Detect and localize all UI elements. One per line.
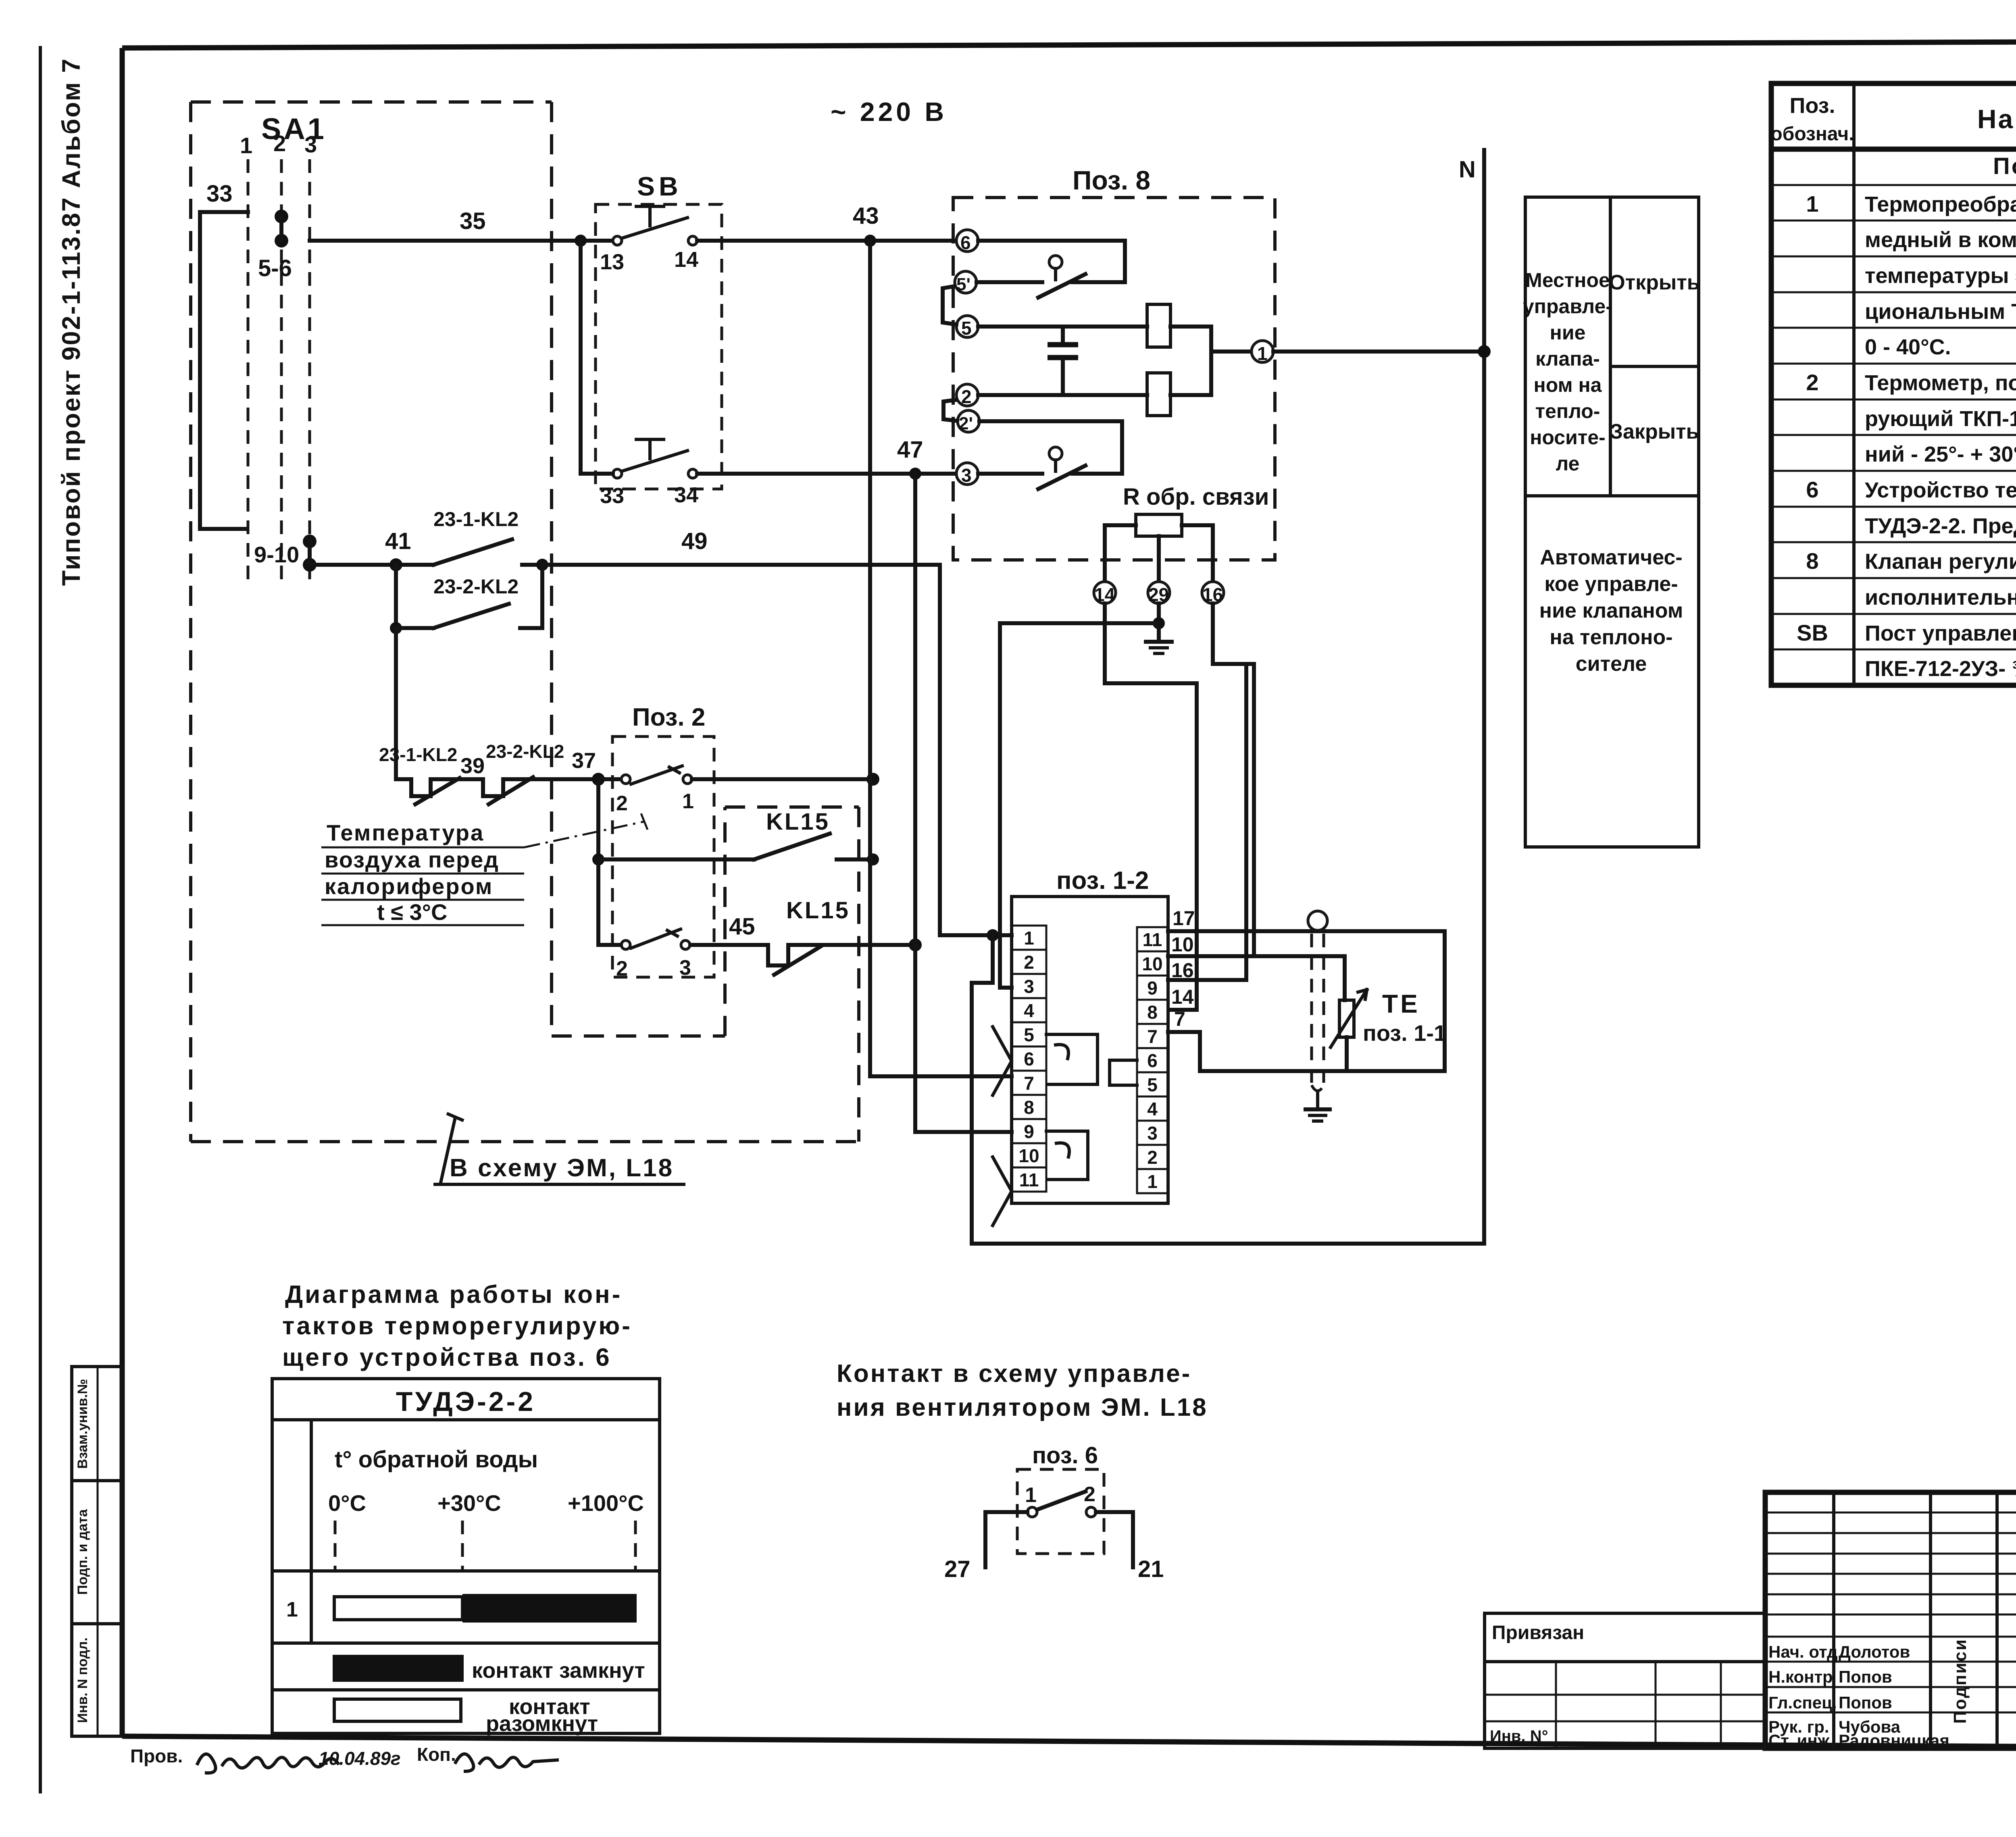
svg-text:N: N: [1459, 156, 1476, 183]
SA1 contact 9-10: [254, 535, 317, 572]
wire 41 row: [310, 528, 433, 571]
svg-text:Клапан регулирующий 25 ч 93: Клапан регулирующий 25 ч 939 нж с: [1865, 549, 2016, 574]
svg-text:Диаграмма работы кон-: Диаграмма работы кон-: [285, 1281, 622, 1309]
wire 49: [536, 528, 940, 571]
svg-text:ле: ле: [1556, 452, 1580, 475]
svg-text:Устройство терморегулирующее: Устройство терморегулирующее: [1865, 478, 2016, 502]
svg-text:исполнительным механизмом МЭ: исполнительным механизмом МЭО-0,63: [1865, 585, 2016, 610]
svg-text:2: 2: [961, 386, 972, 407]
svg-text:8: 8: [1024, 1097, 1034, 1118]
svg-text:ТЕ: ТЕ: [1382, 989, 1420, 1018]
svg-text:щего устройства поз. 6: щего устройства поз. 6: [282, 1344, 612, 1371]
svg-text:Привязан: Привязан: [1492, 1622, 1584, 1644]
svg-text:5': 5': [956, 275, 971, 294]
svg-text:23-2-KL2: 23-2-KL2: [433, 575, 519, 598]
svg-text:+100°С: +100°С: [568, 1490, 644, 1516]
svg-text:t ≤ 3°С: t ≤ 3°С: [377, 899, 447, 925]
wire terminal 16 to strip rows 10 and 16: [1213, 603, 1254, 664]
svg-text:Поз. 8: Поз. 8: [1073, 165, 1150, 195]
note to scheme EM L18: [433, 1113, 685, 1184]
jumper loop cells 10-11: [1046, 1131, 1088, 1180]
valve unit box Poz.8: [953, 165, 1275, 560]
svg-text:39: 39: [460, 754, 485, 778]
svg-text:4: 4: [1024, 1000, 1034, 1021]
svg-text:Инв. N подл.: Инв. N подл.: [75, 1637, 90, 1723]
svg-text:ние клапаном: ние клапаном: [1539, 599, 1683, 622]
svg-text:контакт замкнут: контакт замкнут: [472, 1658, 645, 1683]
wire terminal 14 to strip row 17: [1105, 603, 1197, 1010]
terminal 5': [955, 271, 977, 294]
svg-text:10: 10: [1142, 953, 1162, 974]
svg-text:13: 13: [600, 250, 624, 274]
jumper loop cells 5-7: [1046, 1034, 1098, 1084]
svg-text:Термометр, показывающий сигн: Термометр, показывающий сигнализи-: [1865, 371, 2016, 395]
svg-text:23-2-KL2: 23-2-KL2: [486, 741, 564, 762]
svg-text:3: 3: [304, 132, 317, 157]
svg-text:тепло-: тепло-: [1535, 400, 1600, 422]
sheet edge line: [39, 48, 42, 1792]
wire down from node 37: [596, 779, 600, 945]
svg-text:Н.контр: Н.контр: [1768, 1667, 1833, 1686]
svg-text:Контакт в схему управле-: Контакт в схему управле-: [837, 1360, 1191, 1388]
svg-text:температуры электрическим: температуры электрическим пропор-: [1865, 264, 2016, 288]
wire terminal2 row: [978, 393, 1147, 397]
svg-text:Термопреобразователь сопрот: Термопреобразователь сопротивления: [1865, 192, 2016, 216]
svg-text:Инв. N°: Инв. N°: [1490, 1727, 1548, 1745]
svg-text:t° обратной воды: t° обратной воды: [335, 1446, 538, 1473]
svg-text:рующий ТКП-100Эк. Пределы: рующий ТКП-100Эк. Пределы измере-: [1865, 407, 2016, 431]
svg-text:1: 1: [1806, 191, 1818, 216]
svg-text:ний - 25°- + 30°С.: ний - 25°- + 30°С.: [1865, 442, 2016, 466]
svg-text:5: 5: [1147, 1074, 1158, 1095]
vertical wire from node 43 down: [870, 241, 1012, 1076]
node 43: [853, 203, 879, 247]
RTD element TE poz.1-1: [1331, 989, 1446, 1071]
wire row 16: [1168, 959, 1246, 982]
svg-text:Местное: Местное: [1525, 269, 1610, 291]
svg-text:Попов: Попов: [1839, 1667, 1892, 1686]
svg-text:11: 11: [1019, 1169, 1039, 1190]
svg-text:3: 3: [961, 465, 972, 486]
svg-text:45: 45: [729, 913, 755, 940]
left terminal strip cells 1-11: [1012, 926, 1046, 1192]
wire 35 top row: [310, 208, 617, 241]
svg-text:2: 2: [616, 957, 628, 980]
svg-text:2: 2: [1024, 952, 1034, 973]
upper relay contact KL15 row: [592, 809, 879, 865]
svg-text:клапа-: клапа-: [1535, 347, 1600, 370]
svg-text:21: 21: [1138, 1556, 1164, 1582]
svg-text:обознач.: обознач.: [1770, 123, 1854, 145]
svg-text:9-10: 9-10: [254, 542, 299, 567]
svg-text:~ 220 В: ~ 220 В: [831, 97, 947, 127]
node at SB left: [575, 235, 587, 247]
sensor TE enclosure: [1200, 931, 1445, 1071]
svg-text:SB: SB: [1797, 620, 1828, 645]
switch SA1: [240, 112, 327, 583]
relay contact 23-2-KL2 branch: [390, 565, 542, 634]
wire winding B to node: [1170, 352, 1211, 395]
title block: [1485, 1492, 2016, 1797]
svg-text:Пост управления кнопочный: Пост управления кнопочный: [1865, 621, 2016, 645]
svg-text:Нач. отд: Нач. отд: [1768, 1642, 1838, 1661]
thermostat contact poz.6: [944, 1442, 1164, 1582]
wire SB branch down: [579, 241, 583, 474]
wire terminal6 loop: [978, 241, 1125, 282]
svg-text:0°С: 0°С: [328, 1490, 366, 1516]
svg-text:Взам.унив.№: Взам.унив.№: [75, 1379, 90, 1469]
interlock contact 23-1-KL2 (notch type): [379, 744, 460, 804]
wire row 10: [1168, 933, 1345, 1000]
wire 37: [524, 749, 623, 786]
feedback resistor R obr svyazi: [1105, 484, 1269, 582]
diagram table TUDE-2-2: [272, 1379, 660, 1736]
N line: [1459, 150, 1491, 1244]
svg-text:ТУДЭ-2-2: ТУДЭ-2-2: [396, 1386, 535, 1417]
svg-text:6: 6: [1147, 1050, 1158, 1071]
svg-text:По месту: По месту: [1993, 153, 2016, 179]
svg-text:KL15: KL15: [786, 897, 850, 924]
connector chevron lower: [993, 1157, 1012, 1225]
svg-text:1: 1: [286, 1598, 298, 1621]
terminal 3: [956, 463, 978, 486]
svg-text:поз. 1-2: поз. 1-2: [1056, 867, 1149, 895]
svg-text:циональным ТЭ2П. Пределы регул: циональным ТЭ2П. Пределы регулирования: [1865, 300, 2016, 324]
pushbutton SB box: [596, 171, 722, 489]
svg-text:1: 1: [1024, 928, 1034, 949]
SB button open contact 13-14: [600, 206, 955, 274]
svg-text:SB: SB: [637, 171, 682, 201]
jumper 5'-5: [943, 286, 956, 325]
svg-text:поз. 6: поз. 6: [1032, 1442, 1098, 1469]
terminal 6: [956, 230, 978, 253]
svg-text:1: 1: [682, 790, 694, 813]
svg-text:2: 2: [1147, 1147, 1158, 1168]
svg-text:ние: ние: [1550, 321, 1586, 344]
relay contact 23-1-KL2 on wire 41: [433, 508, 542, 565]
svg-text:Подп. и дата: Подп. и дата: [75, 1509, 90, 1595]
svg-text:2: 2: [1806, 370, 1818, 395]
svg-text:9: 9: [1024, 1121, 1034, 1142]
fan control contact caption: [837, 1360, 1208, 1421]
wire winding A to node: [1170, 327, 1211, 352]
svg-text:В схему ЭМ, L18: В схему ЭМ, L18: [450, 1154, 674, 1182]
ground symbol: [1146, 623, 1172, 653]
limit switch on 3 line: [978, 447, 1122, 489]
wire row 7: [1168, 1008, 1200, 1071]
svg-text:41: 41: [385, 528, 411, 554]
Poz.2 lower contact 2-3: [598, 929, 764, 980]
terminal 14: [1094, 582, 1116, 605]
right terminal strip cells 11-1: [1137, 927, 1168, 1193]
svg-text:1: 1: [240, 133, 252, 158]
svg-text:Автоматичес-: Автоматичес-: [1540, 546, 1683, 569]
svg-text:кое управле-: кое управле-: [1544, 572, 1678, 596]
handwritten notes: [130, 1744, 557, 1773]
component list table: [1770, 83, 2016, 685]
Poz.2 upper contact 2-1: [616, 766, 879, 815]
svg-text:1: 1: [1147, 1171, 1158, 1192]
svg-text:Пров.: Пров.: [130, 1745, 183, 1766]
svg-text:49: 49: [681, 528, 708, 554]
svg-text:2: 2: [1084, 1483, 1095, 1506]
svg-text:5: 5: [961, 318, 972, 339]
wire loop to N line bottom: [972, 935, 1484, 1244]
svg-text:33: 33: [206, 181, 233, 207]
svg-text:Радовницкая: Радовницкая: [1839, 1731, 1949, 1750]
wire down to interlock row: [394, 628, 398, 779]
lower relay contact KL15 (notch type): [764, 897, 922, 975]
svg-text:4: 4: [1147, 1098, 1158, 1119]
svg-text:34: 34: [674, 483, 698, 507]
svg-text:+30°С: +30°С: [437, 1490, 501, 1516]
svg-text:на теплоно-: на теплоно-: [1549, 626, 1672, 649]
svg-text:Попов: Попов: [1839, 1693, 1892, 1712]
wire terminal 2' loop: [979, 421, 1122, 474]
svg-text:3: 3: [1024, 976, 1034, 997]
svg-text:тактов терморегулирую-: тактов терморегулирую-: [282, 1312, 632, 1340]
svg-text:14: 14: [674, 248, 698, 272]
thermometer box Poz.2: [612, 703, 714, 977]
svg-text:14: 14: [1171, 986, 1194, 1008]
svg-text:17: 17: [1173, 907, 1195, 930]
limit switch on 5' line: [977, 256, 1125, 297]
wire 33 bracket: [200, 181, 248, 529]
local control caption box: [1523, 197, 1700, 847]
vertical wire from node 47 down: [915, 474, 1012, 1132]
connector chevron left: [993, 1027, 1012, 1095]
terminal 2: [956, 384, 978, 407]
svg-text:11: 11: [1143, 929, 1162, 950]
actuator winding B: [1147, 373, 1170, 416]
terminal 5: [956, 316, 978, 339]
svg-text:6: 6: [1806, 477, 1818, 502]
svg-text:носите-: носите-: [1530, 426, 1606, 449]
svg-text:8: 8: [1147, 1002, 1158, 1023]
svg-text:управле-: управле-: [1523, 295, 1612, 318]
contact operation diagram caption: [282, 1281, 632, 1371]
svg-text:5-6: 5-6: [258, 255, 292, 281]
svg-text:воздуха перед: воздуха перед: [325, 847, 499, 872]
svg-text:сителе: сителе: [1576, 652, 1647, 676]
svg-text:2: 2: [616, 792, 628, 815]
jumper 2-2': [943, 400, 957, 421]
svg-text:2: 2: [273, 131, 286, 156]
svg-text:разомкнут: разомкнут: [486, 1712, 598, 1736]
svg-text:10: 10: [1018, 1145, 1039, 1166]
svg-text:Поз.: Поз.: [1790, 94, 1835, 118]
svg-text:поз. 1-1: поз. 1-1: [1363, 1020, 1446, 1046]
svg-text:2': 2': [959, 414, 973, 433]
wire row 17: [1168, 907, 1445, 931]
svg-text:Поз. 2: Поз. 2: [632, 703, 705, 731]
svg-text:Гл.спец.: Гл.спец.: [1768, 1693, 1837, 1712]
interlock contact 23-2-KL2 (notch type): [447, 741, 564, 804]
capacitor: [1048, 327, 1078, 395]
SB button contact 33-34 lower: [581, 439, 956, 508]
terminal 16: [1202, 582, 1224, 605]
svg-text:ТУДЭ-2-2. Пределы измерений: ТУДЭ-2-2. Пределы измерений 0-100°С: [1865, 514, 2016, 538]
svg-text:Коп.: Коп.: [417, 1744, 456, 1765]
left margin stamp boxes: [72, 1367, 122, 1736]
temperature note block: [321, 813, 648, 925]
svg-text:6: 6: [1024, 1049, 1034, 1069]
svg-text:47: 47: [897, 437, 923, 463]
svg-text:8: 8: [1806, 548, 1818, 574]
wire ground bus to terminal strip: [1000, 623, 1159, 988]
svg-text:Закрыть: Закрыть: [1610, 420, 1699, 443]
svg-text:0 - 40°С.: 0 - 40°С.: [1865, 335, 1951, 359]
svg-text:Открыть: Открыть: [1609, 271, 1700, 294]
actuator winding A: [1147, 304, 1170, 347]
svg-text:37: 37: [572, 749, 596, 773]
svg-text:Подписи: Подписи: [1950, 1638, 1970, 1724]
svg-text:1: 1: [1257, 343, 1268, 364]
node 47: [897, 437, 923, 480]
svg-text:Долотов: Долотов: [1839, 1642, 1910, 1661]
svg-text:Наименование: Наименование: [1977, 104, 2016, 134]
outer dashed enclosure: [191, 102, 859, 1142]
svg-text:1: 1: [1025, 1483, 1037, 1507]
svg-text:27: 27: [944, 1556, 971, 1582]
thermowell dashed: [1308, 911, 1327, 1091]
svg-text:Типовой проект 902-1-113.87: Типовой проект 902-1-113.87 Альбом 7: [57, 58, 85, 586]
svg-text:6: 6: [960, 232, 971, 253]
svg-text:ПКЕ-712-2УЗ- ¾ " ТУ16-642006-: ПКЕ-712-2УЗ- ¾ " ТУ16-642006-83: [1865, 657, 2016, 681]
svg-text:3: 3: [679, 956, 691, 980]
output terminal 1: [1211, 341, 1273, 364]
svg-text:35: 35: [460, 208, 486, 234]
svg-text:7: 7: [1147, 1026, 1158, 1047]
svg-text:5: 5: [1024, 1024, 1034, 1045]
connector block poz.1-2: [1012, 867, 1168, 1203]
svg-text:43: 43: [853, 203, 879, 229]
svg-text:Температура: Температура: [327, 820, 484, 845]
svg-text:ном на: ном на: [1534, 374, 1602, 396]
svg-text:23-1-KL2: 23-1-KL2: [379, 744, 457, 765]
vertical wire 49 down to terminal 1: [940, 565, 1012, 941]
svg-text:7: 7: [1024, 1073, 1034, 1094]
svg-text:10.04.89г: 10.04.89г: [319, 1748, 401, 1769]
svg-text:R обр. связи: R обр. связи: [1123, 484, 1269, 510]
svg-text:3: 3: [1147, 1123, 1158, 1144]
svg-text:KL15: KL15: [766, 809, 830, 835]
svg-text:10: 10: [1171, 933, 1194, 956]
svg-text:Ст. инж.: Ст. инж.: [1768, 1731, 1834, 1750]
svg-text:7: 7: [1174, 1008, 1185, 1030]
wire terminal1 to N: [1273, 350, 1484, 354]
terminal 29: [1148, 582, 1170, 605]
sensor ground: [1306, 1093, 1330, 1121]
svg-text:калорифером: калорифером: [325, 874, 493, 899]
wire terminal 29 to ground: [1153, 603, 1165, 629]
svg-text:медный в комплекте с регул: медный в комплекте с регулятором: [1865, 228, 2016, 252]
svg-text:ния вентилятором ЭМ. L18: ния вентилятором ЭМ. L18: [837, 1394, 1208, 1421]
svg-text:33: 33: [600, 484, 624, 508]
jumper loop right strip 5-6: [1110, 1060, 1137, 1085]
SA1 contact 5-6: [258, 210, 292, 281]
wire terminal5 row: [978, 325, 1147, 329]
svg-text:23-1-KL2: 23-1-KL2: [433, 508, 519, 531]
terminal 2': [958, 410, 979, 433]
svg-text:9: 9: [1147, 978, 1158, 999]
